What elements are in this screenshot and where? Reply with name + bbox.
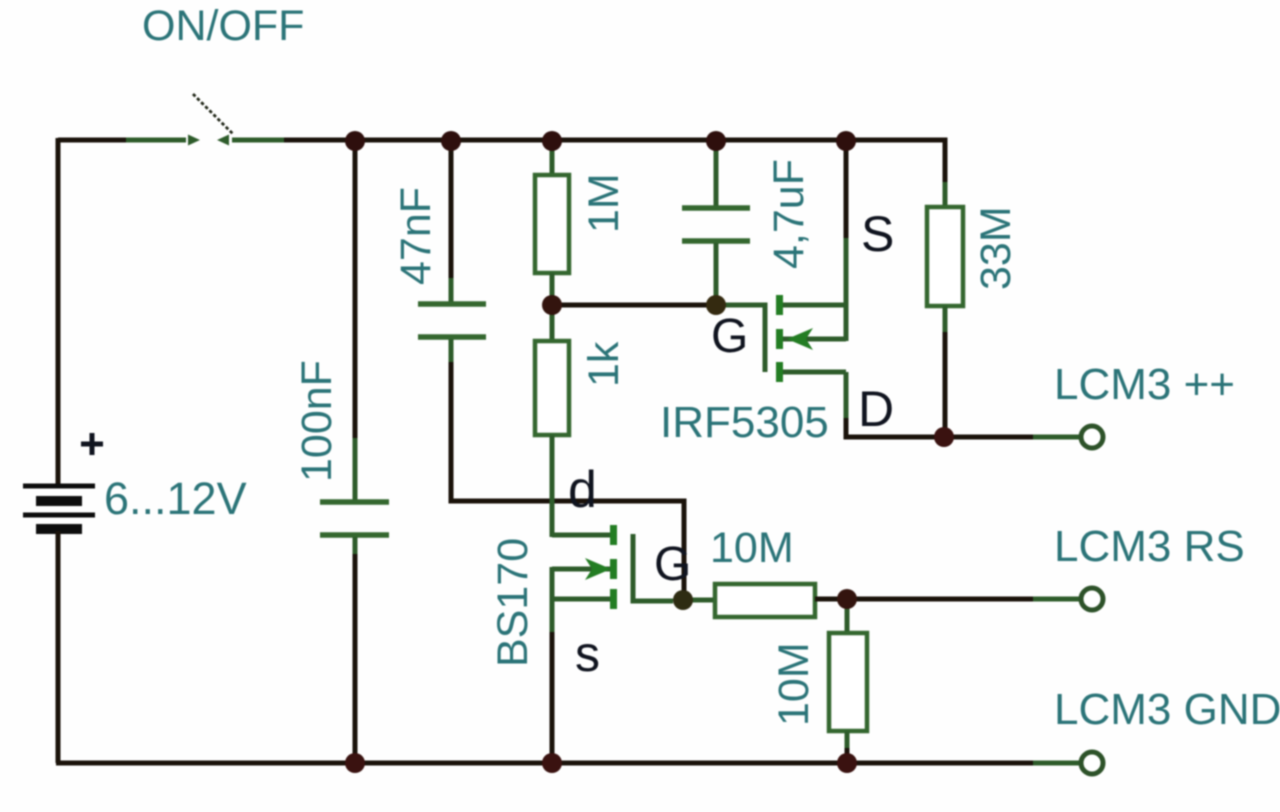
svg-text:ON/OFF: ON/OFF	[142, 2, 304, 50]
wire RS node to LCM3 RS terminal	[847, 597, 1035, 602]
svg-text:s: s	[575, 626, 600, 682]
transistor Q1 channel bar top	[610, 525, 617, 545]
svg-text:1M: 1M	[580, 173, 628, 233]
wire BS170 source vertical	[550, 567, 555, 634]
battery B1 plate short thick 1	[36, 496, 82, 506]
wire 10M vertical bottom to bottom rail	[845, 731, 850, 750]
svg-text:100nF: 100nF	[293, 360, 341, 482]
svg-text:D: D	[858, 381, 894, 437]
wire switch right contact to junction, green then black	[232, 138, 287, 143]
transistor Q1 channel bar bottom	[610, 589, 617, 609]
wire stub green top rail to 1M	[550, 141, 555, 177]
junction bottom rail x847	[837, 753, 857, 773]
svg-text:47nF: 47nF	[392, 187, 440, 285]
transistor Q1 substrate stub with arrow	[552, 567, 610, 572]
svg-text:10M: 10M	[710, 524, 794, 572]
junction top rail x552	[542, 131, 562, 151]
wire gate node horizontal to IRF5305 gate junction	[552, 303, 716, 308]
wire branch x355 upper	[353, 141, 358, 440]
svg-text:10M: 10M	[770, 642, 818, 726]
junction bottom rail x552	[542, 753, 562, 773]
transistor Q2 channel bar middle	[776, 329, 783, 349]
capacitor C3 4,7uF top plate	[682, 205, 750, 211]
battery B1 plus sign	[81, 433, 103, 455]
wire branch x451 upper	[449, 141, 454, 280]
switch S1 blade	[193, 94, 233, 134]
terminal LCM3 RS pad	[1081, 588, 1103, 610]
svg-text:LCM3 ++: LCM3 ++	[1054, 360, 1235, 409]
capacitor C2 47nF top plate	[418, 301, 486, 307]
wire 33M from top rail corner	[943, 140, 945, 184]
capacitor C1 100nF bottom plate	[320, 532, 389, 538]
junction 1M-1k gate node	[542, 295, 562, 315]
capacitor C1 100nF top plate	[320, 499, 389, 505]
wire drain node to LCM3 ++ terminal	[944, 435, 1035, 440]
junction top rail x451	[441, 131, 461, 151]
svg-text:1k: 1k	[580, 341, 628, 387]
wire BS170 gate node to 10M	[683, 598, 717, 603]
wire RS node down to 10M vertical	[845, 599, 850, 635]
battery B1 plate long thin 2	[23, 513, 95, 518]
junction top rail x355	[345, 131, 365, 151]
svg-text:6...12V: 6...12V	[104, 473, 247, 524]
resistor R3 33M body	[927, 207, 963, 306]
transistor Q1 BS170 drain stub	[552, 533, 612, 538]
battery B1 plate long thin 1	[23, 484, 95, 489]
transistor Q2 arrow	[787, 328, 813, 350]
svg-text:IRF5305: IRF5305	[660, 398, 829, 447]
wire IRF5305 source vertical from top rail	[844, 141, 849, 240]
resistor R4 10M body horizontal	[715, 584, 815, 617]
wire stub green to 47nF top	[449, 278, 454, 302]
junction BS170 gate node	[673, 590, 693, 610]
resistor R5 10M body vertical	[829, 633, 867, 731]
wire 10M right to RS node	[815, 597, 847, 602]
resistor R1 1M body	[535, 175, 569, 273]
transistor Q2 channel bar bottom	[776, 362, 783, 382]
switch S1 right arrow contact	[217, 135, 229, 146]
switch S1 left arrow contact	[188, 135, 200, 146]
capacitor C3 stub from top rail	[714, 141, 719, 208]
wire top rail green segment into switch left contact	[126, 138, 186, 143]
wire left rail battery to bottom rail	[56, 531, 61, 763]
battery B1 plate short thick 2	[36, 524, 82, 534]
wire 100nF bottom to bottom rail	[353, 537, 358, 556]
svg-text:BS170: BS170	[489, 538, 537, 667]
wire top rail black from switch to 33M corner	[284, 138, 945, 143]
wire 4,7uF bottom to gate junction	[714, 243, 719, 305]
junction drain node LCM3 ++	[934, 427, 954, 447]
wire bottom rail	[56, 761, 1035, 766]
svg-text:LCM3 RS: LCM3 RS	[1054, 522, 1245, 571]
wire left rail down to battery	[56, 138, 61, 485]
capacitor C3 4,7uF bottom plate	[682, 238, 750, 244]
junction RS node	[837, 589, 857, 609]
wire 47nF bottom to BS170 gate node	[451, 362, 684, 598]
transistor Q1 channel bar middle	[610, 559, 617, 579]
wire stub green to 100nF top	[353, 438, 358, 500]
wire top rail left black segment	[58, 138, 128, 143]
transistor Q1 arrow	[585, 558, 611, 580]
junction bottom rail x355	[345, 753, 365, 773]
wire stub junction to 1k top	[550, 305, 555, 343]
svg-text:LCM3 GND: LCM3 GND	[1054, 685, 1280, 734]
transistor Q2 drain stub	[783, 370, 846, 375]
transistor Q2 IRF5305 gate wire and bar	[714, 305, 765, 372]
terminal LCM3 GND pad	[1081, 752, 1103, 774]
resistor R2 1k body	[535, 341, 569, 435]
svg-text:33M: 33M	[972, 206, 1020, 290]
transistor Q2 substrate stub with arrow	[783, 337, 846, 342]
wire bottom rail to LCM3 GND terminal	[1033, 761, 1081, 766]
svg-text:G: G	[654, 538, 691, 591]
junction IRF gate node	[706, 295, 726, 315]
wire 47nF bottom stub green	[449, 339, 454, 364]
junction top rail x716	[706, 131, 726, 151]
junction top rail x846	[836, 131, 856, 151]
wire 1k bottom to BS170 drain	[550, 435, 555, 537]
wire 33M bottom to drain node	[943, 306, 948, 334]
svg-text:G: G	[711, 310, 748, 363]
svg-text:4,7uF: 4,7uF	[765, 159, 813, 269]
terminal LCM3 ++ pad	[1081, 426, 1103, 448]
wire IRF5305 drain down and right to node	[844, 372, 849, 420]
transistor Q1 gate bar	[633, 534, 673, 601]
svg-text:d: d	[568, 461, 597, 519]
wire stub 1M bottom to gate node junction	[550, 273, 555, 307]
transistor Q2 channel bar top	[776, 295, 783, 315]
capacitor C2 47nF bottom plate	[418, 334, 486, 340]
transistor Q2 source stub	[783, 303, 846, 308]
transistor Q1 source stub	[552, 597, 610, 602]
svg-text:S: S	[861, 206, 894, 262]
